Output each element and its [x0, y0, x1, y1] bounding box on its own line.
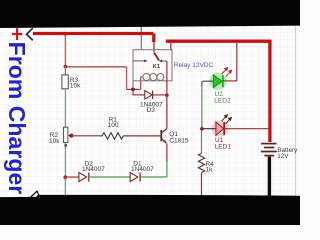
svg-text:100: 100 [108, 122, 119, 129]
svg-text:LED2: LED2 [214, 98, 231, 105]
wire below R4 off screen [201, 173, 203, 197]
relay K1 coil loops [143, 74, 164, 81]
wire LED2 cathode to + bus [223, 43, 237, 81]
svg-text:D3: D3 [147, 107, 156, 114]
relay K1 lever [154, 53, 159, 61]
svg-text:C1815: C1815 [169, 138, 189, 145]
wire thick red stub down toward relay common [152, 34, 155, 43]
svg-text:10k: 10k [70, 83, 81, 90]
relay K1 NO contact arrow [159, 60, 167, 63]
LED U2 glow [209, 72, 227, 90]
LED U1 glow [211, 120, 228, 137]
junction on + bus above R3 [64, 32, 68, 36]
transistor Q1 [161, 128, 167, 143]
relay pin bottom-left [132, 81, 134, 90]
wire node B down to D3 anode [133, 89, 145, 95]
wire node A to relay coil area [65, 66, 126, 68]
wire Q1 emitter down [166, 144, 168, 178]
wire green LED1 node down to R4 [201, 130, 203, 153]
wire into LED1 anode [202, 128, 216, 130]
svg-text:1N4007: 1N4007 [131, 166, 154, 173]
svg-text:LED1: LED1 [215, 144, 232, 151]
resistor R1 [100, 133, 126, 139]
wire horizontal to coil node B [127, 88, 141, 90]
relay K1 body [133, 50, 172, 81]
wire to D2 anode [65, 176, 79, 178]
wire relay NO contact down to Q1 collector [166, 61, 168, 128]
LED U2 (green) [213, 75, 223, 88]
schematic frame right edge [295, 26, 297, 196]
svg-text:1N4007: 1N4007 [82, 166, 105, 173]
wire into LED2 anode [203, 80, 214, 82]
wire black battery negative down [268, 157, 271, 197]
svg-text:From Charger: From Charger [4, 42, 30, 195]
wire green D1 cathode to emitter corner [140, 176, 167, 178]
arrow head at bus start [27, 28, 33, 40]
wire thick red + bus right segment [166, 40, 272, 43]
wire thick red vertical down to battery + [268, 40, 271, 142]
node B below relay [131, 88, 135, 92]
wire Q1 base to R1 [125, 135, 161, 137]
potentiometer R2 [64, 127, 72, 142]
LED U2 light rays [222, 68, 232, 77]
wire LED1 cathode to battery + line [224, 128, 269, 130]
plus symbol charger positive [12, 28, 22, 40]
wire green below diode-row junction off screen [64, 177, 66, 196]
letterbox bar top [0, 0, 300, 28]
wire LED2 anode down to LED1 node [201, 81, 203, 129]
letterbox bar bottom [0, 195, 300, 225]
node A (R3 top) [64, 65, 68, 69]
LED U1 light rays [222, 115, 232, 124]
diode D2 [79, 173, 89, 182]
relay K1 NC contact arrow [134, 59, 148, 62]
battery BT1 12V [261, 144, 277, 156]
wire thin red drop into relay NO pin [170, 43, 172, 51]
svg-text:10k: 10k [49, 138, 60, 145]
wire thin red into relay common pin [153, 42, 155, 52]
wire R2 wiper to R1 [71, 135, 100, 137]
wire relay coil left lead [141, 77, 143, 89]
wire grey vertical from top edge to relay NC pin [140, 27, 142, 51]
node R2 bottom pin [64, 144, 67, 147]
junction D3 cathode / coil right [165, 93, 169, 97]
junction R2 wiper [69, 134, 73, 138]
wire green D2 cathode to D1 anode [89, 176, 130, 178]
diode D1 [130, 173, 140, 182]
svg-text:K1: K1 [153, 64, 161, 70]
resistor R3 [62, 75, 68, 89]
wire riser beside relay box [126, 67, 128, 90]
wire D3 cathode to collector line [153, 94, 167, 96]
junction diode row left [63, 176, 67, 180]
diode D3 [145, 91, 153, 100]
watermark tick above bottom bar [31, 191, 39, 197]
junction LED1 anode node [200, 127, 204, 131]
resistor R4 [198, 153, 204, 172]
wire green below R2 [64, 143, 66, 178]
wire thick red + bus left segment [33, 32, 154, 35]
wire green R3 bottom to R2 top [64, 89, 66, 127]
svg-text:1k: 1k [206, 167, 214, 174]
wire node A to R3 body [64, 67, 66, 75]
wire thin red drop from + bus to node A [64, 34, 66, 67]
svg-text:12V: 12V [277, 153, 289, 160]
svg-text:Relay 12VDC: Relay 12VDC [174, 62, 214, 69]
LED U1 (red) [216, 122, 224, 135]
